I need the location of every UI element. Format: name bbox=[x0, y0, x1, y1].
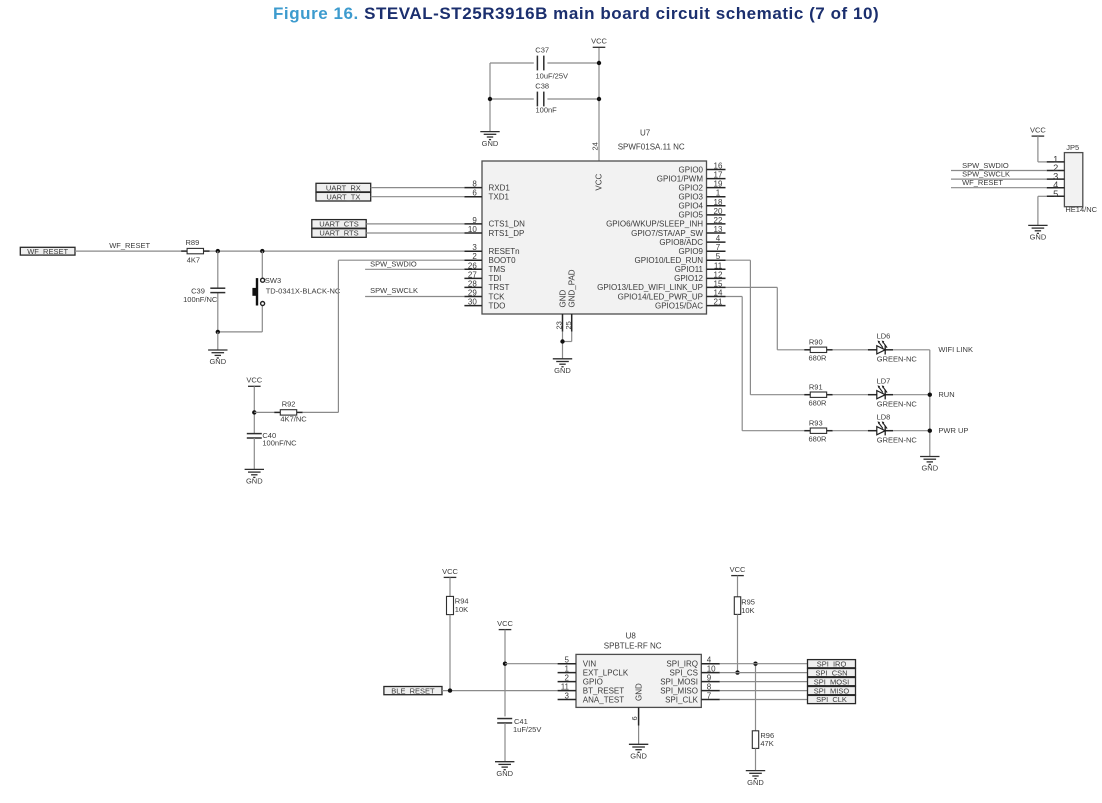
svg-text:20: 20 bbox=[714, 207, 723, 216]
svg-text:GPIO3: GPIO3 bbox=[679, 193, 704, 202]
svg-text:GPIO1/PWM: GPIO1/PWM bbox=[657, 174, 704, 183]
svg-text:JP5: JP5 bbox=[1066, 143, 1079, 152]
svg-text:GND: GND bbox=[209, 357, 226, 366]
svg-text:1: 1 bbox=[716, 189, 721, 198]
svg-text:4: 4 bbox=[716, 234, 721, 243]
svg-text:4K7/NC: 4K7/NC bbox=[280, 415, 307, 424]
svg-text:5: 5 bbox=[716, 252, 721, 261]
svg-text:C38: C38 bbox=[535, 81, 549, 90]
svg-text:23: 23 bbox=[555, 321, 564, 329]
svg-text:SPBTLE-RF NC: SPBTLE-RF NC bbox=[604, 642, 662, 651]
svg-text:VIN: VIN bbox=[583, 660, 597, 669]
svg-text:WIFI LINK: WIFI LINK bbox=[938, 345, 973, 354]
svg-text:R91: R91 bbox=[809, 382, 823, 391]
svg-text:12: 12 bbox=[714, 270, 723, 279]
svg-text:R93: R93 bbox=[809, 418, 823, 427]
svg-text:100nF/NC: 100nF/NC bbox=[183, 295, 218, 304]
svg-text:19: 19 bbox=[714, 180, 723, 189]
svg-text:GREEN-NC: GREEN-NC bbox=[877, 400, 918, 409]
svg-text:11: 11 bbox=[714, 261, 723, 270]
svg-text:10K: 10K bbox=[741, 606, 754, 615]
svg-text:PWR UP: PWR UP bbox=[938, 426, 968, 435]
svg-text:4K7: 4K7 bbox=[187, 255, 200, 264]
svg-text:SPW_SWDIO: SPW_SWDIO bbox=[370, 259, 417, 268]
svg-text:SPI_CLK: SPI_CLK bbox=[816, 695, 847, 704]
svg-text:3: 3 bbox=[472, 243, 477, 252]
svg-text:GND: GND bbox=[496, 769, 513, 778]
svg-text:47K: 47K bbox=[760, 739, 773, 748]
svg-text:GREEN-NC: GREEN-NC bbox=[877, 355, 918, 364]
svg-text:SPI_CS: SPI_CS bbox=[670, 668, 698, 677]
svg-text:GND: GND bbox=[554, 366, 571, 375]
svg-text:100nF: 100nF bbox=[536, 106, 558, 115]
svg-text:GPIO4: GPIO4 bbox=[679, 202, 704, 211]
svg-text:UART_RTS: UART_RTS bbox=[319, 229, 358, 238]
svg-text:RESETn: RESETn bbox=[489, 247, 520, 256]
svg-text:13: 13 bbox=[714, 225, 723, 234]
svg-text:TCK: TCK bbox=[489, 292, 506, 301]
svg-text:LD7: LD7 bbox=[877, 376, 891, 385]
svg-text:GND: GND bbox=[1030, 233, 1047, 242]
svg-text:10: 10 bbox=[707, 665, 716, 674]
svg-text:SPI_MISO: SPI_MISO bbox=[814, 686, 850, 695]
svg-text:C37: C37 bbox=[535, 45, 549, 54]
svg-text:LD6: LD6 bbox=[877, 331, 891, 340]
svg-text:ANA_TEST: ANA_TEST bbox=[583, 695, 624, 704]
svg-text:2: 2 bbox=[565, 674, 570, 683]
svg-text:GPIO2: GPIO2 bbox=[679, 183, 704, 192]
svg-text:8: 8 bbox=[707, 683, 712, 692]
svg-text:GND: GND bbox=[921, 464, 938, 473]
svg-text:VCC: VCC bbox=[246, 376, 262, 385]
svg-text:4: 4 bbox=[707, 656, 712, 665]
svg-text:5: 5 bbox=[1053, 189, 1058, 199]
svg-text:1: 1 bbox=[565, 665, 570, 674]
svg-text:10uF/25V: 10uF/25V bbox=[536, 71, 569, 80]
svg-text:22: 22 bbox=[714, 216, 723, 225]
svg-text:9: 9 bbox=[707, 674, 712, 683]
svg-text:GPIO12: GPIO12 bbox=[674, 274, 703, 283]
svg-text:GREEN-NC: GREEN-NC bbox=[877, 436, 918, 445]
svg-text:GND: GND bbox=[246, 477, 263, 486]
svg-text:14: 14 bbox=[714, 289, 723, 298]
svg-text:SW3: SW3 bbox=[265, 276, 281, 285]
svg-text:TDO: TDO bbox=[489, 301, 506, 310]
svg-text:2: 2 bbox=[472, 252, 477, 261]
svg-text:10K: 10K bbox=[455, 605, 468, 614]
svg-text:GPIO15/DAC: GPIO15/DAC bbox=[655, 301, 703, 310]
svg-text:RUN: RUN bbox=[938, 390, 954, 399]
svg-text:HE14/NC: HE14/NC bbox=[1065, 205, 1097, 214]
svg-text:VCC: VCC bbox=[594, 173, 603, 190]
svg-text:26: 26 bbox=[468, 261, 477, 270]
svg-text:R89: R89 bbox=[186, 238, 200, 247]
svg-text:LD8: LD8 bbox=[877, 412, 891, 421]
svg-text:30: 30 bbox=[468, 298, 477, 307]
svg-text:24: 24 bbox=[591, 142, 600, 150]
svg-text:VCC: VCC bbox=[730, 565, 746, 574]
svg-text:TDI: TDI bbox=[489, 274, 502, 283]
svg-text:17: 17 bbox=[714, 171, 723, 180]
svg-text:GND: GND bbox=[558, 290, 567, 308]
svg-text:SPW_SWCLK: SPW_SWCLK bbox=[370, 286, 418, 295]
svg-text:11: 11 bbox=[561, 683, 570, 692]
svg-text:7: 7 bbox=[707, 692, 712, 701]
svg-text:680R: 680R bbox=[809, 434, 828, 443]
svg-text:VCC: VCC bbox=[591, 37, 607, 46]
svg-text:SPI_IRQ: SPI_IRQ bbox=[817, 659, 847, 668]
svg-text:CTS1_DN: CTS1_DN bbox=[489, 220, 526, 229]
svg-text:TRST: TRST bbox=[489, 283, 510, 292]
svg-text:SPI_CLK: SPI_CLK bbox=[665, 695, 699, 704]
svg-text:18: 18 bbox=[714, 198, 723, 207]
svg-text:680R: 680R bbox=[809, 398, 828, 407]
svg-text:GPIO10/LED_RUN: GPIO10/LED_RUN bbox=[635, 256, 704, 265]
svg-text:16: 16 bbox=[714, 162, 723, 171]
svg-text:GND: GND bbox=[747, 778, 764, 787]
svg-text:VCC: VCC bbox=[497, 619, 513, 628]
svg-text:GND: GND bbox=[635, 683, 644, 701]
svg-text:EXT_LPCLK: EXT_LPCLK bbox=[583, 668, 629, 677]
svg-text:VCC: VCC bbox=[1030, 126, 1046, 135]
svg-text:9: 9 bbox=[472, 216, 477, 225]
svg-text:6: 6 bbox=[472, 189, 477, 198]
svg-text:15: 15 bbox=[714, 279, 723, 288]
svg-text:SPI_MOSI: SPI_MOSI bbox=[814, 677, 849, 686]
svg-text:25: 25 bbox=[564, 321, 573, 329]
svg-text:SPI_CSN: SPI_CSN bbox=[815, 668, 847, 677]
svg-text:UART_CTS: UART_CTS bbox=[319, 220, 358, 229]
svg-text:U8: U8 bbox=[626, 631, 637, 640]
svg-text:GPIO5: GPIO5 bbox=[679, 211, 704, 220]
svg-text:SPI_MISO: SPI_MISO bbox=[660, 686, 698, 695]
svg-text:GPIO9: GPIO9 bbox=[679, 247, 704, 256]
svg-text:BOOT0: BOOT0 bbox=[489, 256, 517, 265]
svg-text:U7: U7 bbox=[640, 129, 651, 138]
svg-text:GPIO11: GPIO11 bbox=[675, 265, 704, 274]
svg-text:WF_RESET: WF_RESET bbox=[109, 241, 150, 250]
svg-text:BT_RESET: BT_RESET bbox=[583, 686, 624, 695]
svg-text:GPIO8/ADC: GPIO8/ADC bbox=[659, 238, 703, 247]
svg-text:680R: 680R bbox=[809, 353, 828, 362]
svg-text:3: 3 bbox=[565, 692, 570, 701]
svg-text:RXD1: RXD1 bbox=[489, 183, 511, 192]
svg-text:100nF/NC: 100nF/NC bbox=[262, 439, 297, 448]
svg-text:28: 28 bbox=[468, 279, 477, 288]
svg-text:29: 29 bbox=[468, 289, 477, 298]
svg-text:GPIO: GPIO bbox=[583, 677, 603, 686]
svg-text:GND: GND bbox=[482, 139, 499, 148]
svg-text:SPI_IRQ: SPI_IRQ bbox=[666, 660, 698, 669]
svg-text:10: 10 bbox=[468, 225, 477, 234]
svg-text:GPIO0: GPIO0 bbox=[679, 165, 704, 174]
svg-text:GPIO7/STA/AP_SW: GPIO7/STA/AP_SW bbox=[631, 229, 703, 238]
svg-text:RTS1_DP: RTS1_DP bbox=[489, 229, 525, 238]
svg-text:8: 8 bbox=[472, 180, 477, 189]
svg-text:UART_TX: UART_TX bbox=[326, 192, 360, 201]
svg-text:7: 7 bbox=[716, 243, 721, 252]
svg-text:R90: R90 bbox=[809, 338, 823, 347]
svg-text:WF_RESET: WF_RESET bbox=[962, 178, 1003, 187]
svg-text:GPIO14/LED_PWR_UP: GPIO14/LED_PWR_UP bbox=[618, 292, 703, 301]
svg-text:SPI_MOSI: SPI_MOSI bbox=[660, 677, 698, 686]
svg-text:TD-0341X-BLACK-NC: TD-0341X-BLACK-NC bbox=[266, 287, 341, 296]
svg-text:UART_RX: UART_RX bbox=[326, 183, 361, 192]
svg-text:BLE_RESET: BLE_RESET bbox=[391, 686, 435, 695]
svg-text:VCC: VCC bbox=[442, 567, 458, 576]
svg-text:TMS: TMS bbox=[489, 265, 506, 274]
svg-text:21: 21 bbox=[714, 298, 723, 307]
svg-text:WF_RESET: WF_RESET bbox=[27, 247, 68, 256]
svg-text:5: 5 bbox=[565, 656, 570, 665]
svg-text:R92: R92 bbox=[282, 399, 296, 408]
svg-text:GND_PAD: GND_PAD bbox=[568, 269, 577, 307]
svg-text:GPIO13/LED_WIFI_LINK_UP: GPIO13/LED_WIFI_LINK_UP bbox=[597, 283, 703, 292]
svg-text:SPWF01SA.11 NC: SPWF01SA.11 NC bbox=[618, 143, 685, 152]
svg-text:TXD1: TXD1 bbox=[489, 193, 510, 202]
svg-text:GPIO6/WKUP/SLEEP_INH: GPIO6/WKUP/SLEEP_INH bbox=[606, 220, 703, 229]
svg-text:1uF/25V: 1uF/25V bbox=[513, 725, 541, 734]
svg-text:6: 6 bbox=[630, 716, 639, 720]
svg-text:27: 27 bbox=[468, 270, 477, 279]
svg-text:GND: GND bbox=[630, 752, 647, 761]
